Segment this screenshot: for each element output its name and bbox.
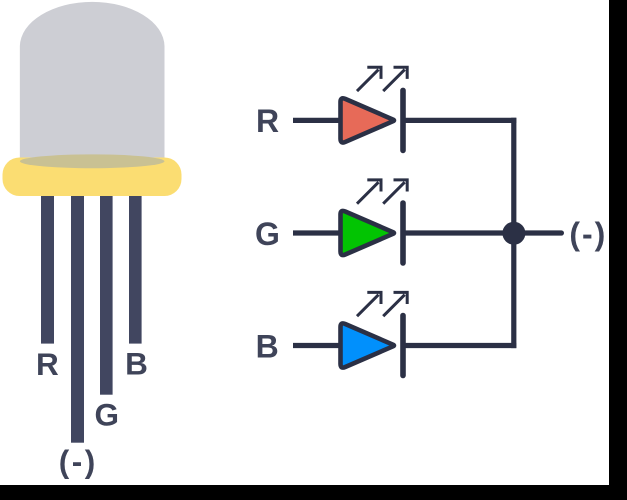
LED flange (yellow base) <box>3 158 182 197</box>
svg-text:R: R <box>256 103 279 139</box>
svg-text:B: B <box>125 345 148 381</box>
svg-text:R: R <box>36 346 59 382</box>
LED D3 cathode bar <box>400 316 406 376</box>
LED lead R (anode leg) <box>41 175 54 344</box>
LED D2 emission arrow 2 <box>383 180 407 204</box>
LED D3 emission arrow 2 <box>383 292 407 316</box>
svg-text:G: G <box>255 216 280 252</box>
wire R cathode to bus <box>405 118 516 123</box>
wire R anode <box>293 118 341 123</box>
svg-text:B: B <box>256 329 279 365</box>
wire B anode <box>293 343 341 348</box>
LED lead (-) common cathode leg <box>71 175 84 443</box>
wire G anode <box>293 230 341 235</box>
LED D2 green triangle <box>341 211 394 255</box>
LED D1 emission arrow 1 <box>357 67 381 91</box>
dome/flange overlap (olive ellipse) <box>20 154 165 168</box>
black right border strip <box>609 0 627 500</box>
svg-text:G: G <box>94 397 119 433</box>
wire G cathode through junction to (-) <box>405 230 561 235</box>
LED D3 blue triangle <box>341 323 394 367</box>
svg-text:(-): (-) <box>569 216 607 252</box>
LED D2 cathode bar <box>400 203 406 263</box>
junction node dot <box>502 222 525 245</box>
wire B cathode to bus <box>405 343 516 348</box>
LED D1 emission arrow 2 <box>383 67 407 91</box>
LED lead B (anode leg) <box>129 175 142 344</box>
LED D1 red triangle <box>341 98 394 142</box>
LED epoxy dome <box>20 2 165 168</box>
black bottom border strip <box>0 485 627 500</box>
wire common cathode bus <box>511 118 516 348</box>
LED D1 cathode bar <box>400 90 406 150</box>
LED D3 emission arrow 1 <box>357 292 381 316</box>
LED lead G (anode leg) <box>100 175 113 395</box>
svg-text:(-): (-) <box>59 444 98 480</box>
LED D2 emission arrow 1 <box>357 180 381 204</box>
